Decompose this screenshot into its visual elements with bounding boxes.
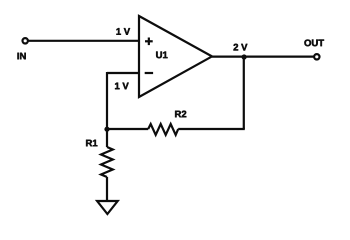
junction node output (242, 54, 247, 59)
wire feedback horizontal right segment (178, 128, 245, 130)
wire inverting input vertical down to node A (106, 72, 108, 129)
label R1 (86, 140, 97, 147)
label IN (17, 53, 25, 60)
wire inverting input horizontal (107, 72, 139, 74)
ground (97, 201, 118, 214)
wire IN to op-amp noninverting input (28, 40, 139, 42)
noninverting input plus marker (145, 40, 153, 42)
label 2 V at output (234, 44, 248, 51)
wire output node down (243, 57, 245, 129)
wire node A to R1 (106, 129, 108, 147)
inverting input minus marker (145, 72, 153, 74)
wire feedback horizontal left segment (106, 128, 148, 130)
terminal IN (23, 38, 28, 43)
wire R1 to ground (106, 177, 108, 201)
wire op-amp output to OUT (212, 55, 314, 57)
resistor R1 (101, 147, 113, 177)
label U1 (156, 52, 167, 59)
label 1 V at noninverting input (116, 28, 130, 35)
op-amp triangle body (139, 16, 212, 97)
junction node A (104, 127, 109, 132)
resistor R2 (148, 124, 178, 135)
label 1 V at inverting input (115, 83, 129, 90)
terminal OUT (314, 54, 319, 59)
op-amp U1 (139, 16, 212, 97)
label R2 (175, 111, 186, 118)
label OUT (304, 39, 324, 46)
